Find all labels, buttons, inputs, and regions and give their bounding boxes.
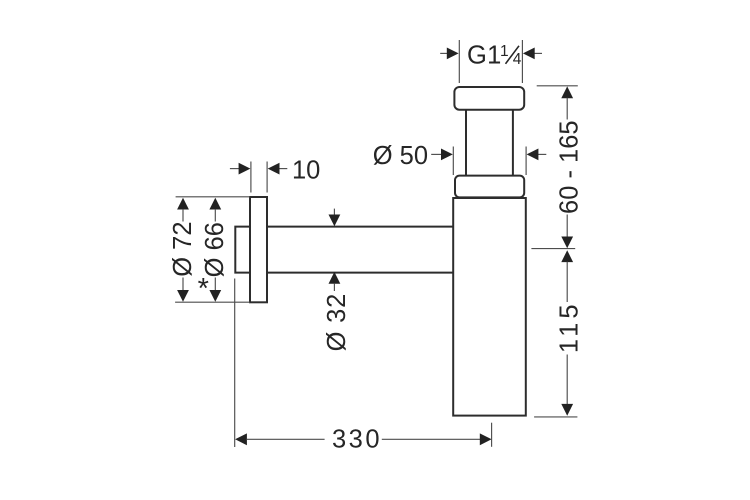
dimension Ø72/Ø66 top extension line <box>176 196 250 198</box>
dimension 115 line and arrows <box>561 250 573 415</box>
dimension G1 1/4 left arrow <box>440 48 458 60</box>
svg-text:Ø 32: Ø 32 <box>323 293 351 351</box>
dimension 10 extension lines <box>251 162 267 193</box>
dimension label G1 1/4 <box>467 42 522 70</box>
dimension 60-165 top extension line <box>537 85 578 87</box>
dimension 60-165 bottom extension line (pipe axis) <box>531 248 575 250</box>
dimension Ø72/Ø66 bottom extension line <box>175 301 250 303</box>
horizontal pipe Ø32 <box>267 227 453 273</box>
dimension Ø66 line and arrows <box>209 198 221 302</box>
top nut G1 1/4 <box>454 87 524 110</box>
dimension 330 left arrow <box>235 433 325 445</box>
wall stub pipe <box>235 227 250 273</box>
svg-text:G1: G1 <box>467 42 502 70</box>
body flange <box>455 176 524 198</box>
svg-text:10: 10 <box>292 157 320 185</box>
wall flange (escutcheon) <box>250 197 267 302</box>
dimension Ø32 bottom arrow <box>329 272 341 291</box>
dimension Ø72 line and arrows <box>177 198 189 302</box>
dimension Ø50 extension lines <box>453 147 526 176</box>
dimension Ø50 left arrow <box>431 149 453 161</box>
svg-text:1: 1 <box>500 43 509 60</box>
svg-text:Ø 72: Ø 72 <box>169 221 197 276</box>
svg-text:*: * <box>198 273 209 305</box>
svg-text:4: 4 <box>513 51 522 68</box>
dimension Ø32 top arrow <box>329 209 341 227</box>
svg-text:Ø 66: Ø 66 <box>201 222 229 277</box>
dimension 330 right extension line <box>491 423 493 447</box>
siphon body Ø50 <box>453 198 526 416</box>
svg-text:330: 330 <box>332 426 382 454</box>
dimension 60-165 line and arrows <box>561 86 573 248</box>
riser pipe <box>466 110 513 176</box>
dimension Ø50 right arrow <box>527 149 547 161</box>
dimension 10 left arrow <box>230 163 251 175</box>
svg-text:60 - 165: 60 - 165 <box>556 120 584 214</box>
dimension 10 right arrow <box>268 163 288 175</box>
dimension 330 right arrow <box>382 433 492 445</box>
dimension G1 1/4 right arrow <box>523 48 542 60</box>
svg-text:Ø 50: Ø 50 <box>373 142 428 170</box>
dimension 330 left extension line <box>234 279 236 448</box>
dimension 115 bottom extension line <box>534 416 577 418</box>
svg-text:115: 115 <box>556 300 584 353</box>
dimension G1 1/4 extension lines <box>459 40 522 83</box>
